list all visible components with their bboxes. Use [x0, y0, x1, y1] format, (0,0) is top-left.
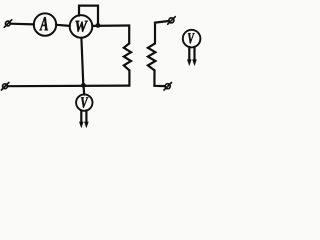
terminal TR — [168, 17, 176, 25]
wire R2 bottom lead to terminal BR — [154, 70, 164, 86]
label A of ammeter — [40, 17, 48, 30]
wire A to W — [56, 25, 70, 26]
probe arrow V1 left — [79, 110, 84, 128]
wire bottom rail — [7, 84, 129, 87]
resistor R1 (load zigzag) — [124, 43, 131, 70]
junction dot bottom rail — [81, 83, 86, 88]
probe arrow V2 left — [187, 47, 192, 66]
wire terminal-TL to A — [10, 23, 34, 26]
label W of wattmeter — [76, 21, 88, 32]
wire W to resistor R1 top — [92, 26, 129, 44]
resistor R2 (load zigzag) — [148, 43, 156, 70]
label V of voltmeter V2 — [188, 33, 195, 43]
terminal TL — [4, 20, 12, 28]
label V of voltmeter V1 — [81, 97, 88, 108]
wattmeter W1 — [70, 15, 93, 38]
wire wattmeter voltage-coil bracket — [79, 6, 98, 26]
junction dot W voltage coil — [96, 23, 101, 28]
wire junction to voltmeter V1 — [82, 85, 85, 94]
terminal BR — [164, 83, 172, 91]
voltmeter V1 — [76, 94, 92, 110]
terminal BL — [1, 83, 8, 91]
wire W bottom lead — [81, 38, 83, 85]
voltmeter V2 — [183, 30, 201, 48]
ammeter A1 — [34, 13, 56, 35]
probe arrow V1 right — [84, 110, 89, 128]
probe arrow V2 right — [192, 47, 197, 66]
wire R1 bottom lead — [128, 70, 130, 85]
wire R2 top lead to terminal TR — [155, 21, 169, 43]
